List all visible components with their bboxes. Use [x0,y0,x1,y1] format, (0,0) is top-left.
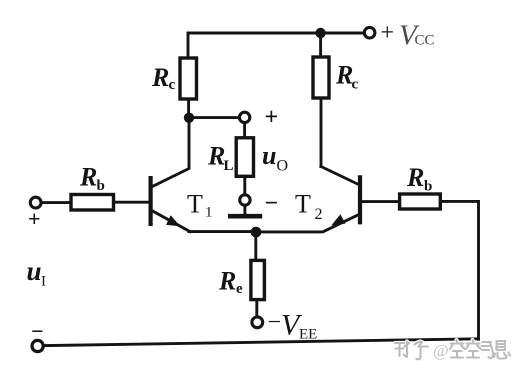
ground [228,214,262,219]
transistor T2 base bar [358,175,362,224]
transistor T1 emitter arrow [167,216,179,225]
terminal input - [32,340,43,351]
resistor Re [251,260,265,299]
label RL [207,142,234,175]
svg-text:+: + [381,20,395,46]
wire ground stem [243,205,246,214]
label Rb (right) [406,163,432,195]
wire left Rb to T1 base [114,201,150,204]
label Rb (left) [79,163,105,195]
label uI [27,256,47,290]
transistor T1 base bar [149,176,153,226]
svg-text:1: 1 [205,205,213,221]
terminal +Vcc [364,27,375,38]
resistor RL [236,138,253,177]
svg-text:−: − [268,310,282,336]
node E junction dot [251,227,262,238]
wire node A to output + terminal [189,116,240,119]
terminal output + [239,112,249,122]
wire T1 emitter diagonal [152,211,190,232]
label +Vcc [381,20,435,52]
resistor Rc (right) [313,57,329,98]
svg-text:T: T [295,190,311,219]
wire input + terminal to left Rb [41,201,71,204]
wire T2 base to right Rb [362,200,400,203]
svg-text:R: R [406,163,424,192]
label Re [218,267,243,298]
svg-text:b: b [97,178,105,194]
resistor Rb (right) [400,194,441,209]
label T2 [295,190,323,224]
svg-text:−: − [31,319,44,344]
svg-text:@: @ [433,341,449,360]
svg-text:+: + [28,206,41,231]
svg-text:+: + [265,105,279,131]
wire T1 collector (vertical + diagonal to base bar) [152,118,189,187]
svg-text:R: R [218,267,236,296]
svg-text:EE: EE [299,327,317,343]
svg-text:R: R [79,163,97,192]
wire top rail from left Rc to Vcc terminal [188,33,364,58]
watermark zhihu [395,340,510,359]
terminal -Vee [252,317,263,328]
svg-text:u: u [262,141,276,170]
wire emitter rail T1 to node E [189,230,256,233]
label T1 [187,190,213,221]
wire right Rc down to T2 collector bend [320,98,323,167]
svg-text:L: L [224,158,234,174]
svg-text:c: c [169,77,176,93]
wire Re down to -Vee terminal [255,300,258,317]
svg-text:e: e [236,281,243,297]
svg-text:2: 2 [315,206,323,223]
junction dot top rail [315,28,325,38]
svg-text:CC: CC [415,33,435,49]
svg-text:O: O [277,158,289,175]
wire right vertical rail [477,201,480,339]
wire node E down to Re [254,232,257,260]
wire node E to T2 emitter diagonal [256,215,359,232]
label uO [262,141,288,175]
label -Vee [268,309,318,343]
svg-text:−: − [265,191,279,217]
resistor Rb (left) [71,195,114,211]
svg-text:T: T [187,190,203,219]
resistor Rc (left) [180,58,197,99]
svg-text:u: u [27,256,42,286]
wire output + terminal down to RL [243,123,246,138]
wire RL down to output - terminal [243,176,246,195]
label Rc (right) [335,61,359,93]
svg-text:R: R [151,63,169,92]
wire T2 collector diagonal [321,167,359,185]
terminal input + [30,197,41,208]
label Rc (left) [151,63,176,93]
svg-text:I: I [41,274,46,290]
wire below left Rc to node A [187,99,190,118]
terminal output - [240,195,250,205]
svg-text:c: c [352,77,359,93]
wire bottom rail from input - terminal to right rail [44,339,479,346]
node A junction dot [184,113,194,123]
transistor T2 emitter arrow [333,215,345,225]
svg-text:b: b [424,179,432,195]
wire right Rb to right rail corner [440,200,478,203]
wire right stub from top rail down to right Rc [319,33,322,57]
